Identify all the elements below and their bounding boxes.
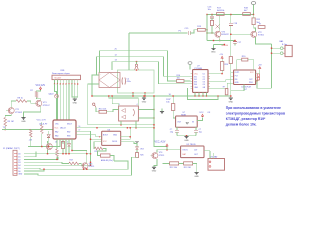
switch cross S1 xyxy=(216,25,220,29)
resistor R26 vertical xyxy=(136,150,138,153)
svg-text:10k: 10k xyxy=(177,78,180,80)
resistor R19 vertical xyxy=(172,96,174,104)
mcu right pin wires xyxy=(76,127,85,129)
svg-text:R?: R? xyxy=(223,87,225,89)
svg-text:OF: OF xyxy=(207,112,211,114)
svg-text:OUT: OUT xyxy=(194,154,199,156)
diode VD2 xyxy=(47,135,50,138)
resistor R18 4k7 xyxy=(243,13,251,16)
power supply flag top xyxy=(251,2,256,5)
diode VD3 xyxy=(136,147,139,150)
wire r20 left to U3 top xyxy=(237,60,242,70)
u6 right pin stubs xyxy=(121,136,124,138)
svg-text:8x1-4k7: 8x1-4k7 xyxy=(55,78,62,80)
wire power stem xyxy=(253,4,255,14)
wire q2 emitter to right rail xyxy=(255,37,271,44)
wire routing loop below U2 xyxy=(188,88,219,100)
wire r20 right xyxy=(248,60,254,70)
power flag diode column xyxy=(135,140,138,142)
gnd arrow small xyxy=(161,109,163,112)
oscillator module ZQ1 xyxy=(173,110,176,118)
transistor VT6 xyxy=(79,163,82,165)
ground flag right xyxy=(195,171,199,173)
module bottom junctions xyxy=(132,92,133,93)
svg-text:VCC 4.7V: VCC 4.7V xyxy=(37,119,47,121)
wire x1 pin 4 xyxy=(14,161,17,163)
svg-text:R12 10k: R12 10k xyxy=(170,167,177,169)
svg-text:KT361: KT361 xyxy=(258,35,265,37)
svg-text:Резисторная сборка: Резисторная сборка xyxy=(52,73,71,75)
svg-text:10n: 10n xyxy=(208,9,212,11)
svg-text:электропроводимых транзисторов: электропроводимых транзисторов xyxy=(226,112,285,116)
svg-text:4: 4 xyxy=(137,104,138,106)
wire rn1 outputs to mcu xyxy=(54,80,56,84)
wire pin1 row xyxy=(24,153,91,155)
ground flag below q1 xyxy=(213,40,214,41)
svg-text:VCC_4,5V: VCC_4,5V xyxy=(155,142,166,144)
wire U2 pin7 to U3 xyxy=(210,83,230,89)
resistor R12 10k xyxy=(170,162,179,165)
svg-text:ЦП_А_РV: ЦП_А_РV xyxy=(39,122,48,125)
wire U2 out through R14 to gnd flag xyxy=(210,70,222,73)
mcu bottom pin stubs xyxy=(56,139,58,144)
resistor R7 vertical zigzag xyxy=(37,90,41,92)
svg-text:16: 16 xyxy=(55,142,57,144)
microphone symbol Y xyxy=(135,64,137,66)
svg-text:BA1: BA1 xyxy=(280,40,285,43)
svg-text:X1 (ПАРАЛ. ПОРТ): X1 (ПАРАЛ. ПОРТ) xyxy=(3,147,20,150)
resistor R29 box vertical xyxy=(62,142,64,144)
svg-text:C18: C18 xyxy=(233,23,238,25)
svg-text:КТ315: КТ315 xyxy=(159,155,164,157)
svg-text:D4: D4 xyxy=(18,165,20,167)
wire pin8 row long nested xyxy=(24,157,137,175)
svg-text:PC900B: PC900B xyxy=(195,68,203,70)
ground flag above U2 right xyxy=(213,45,215,49)
wire speaker feed 1 xyxy=(272,47,281,49)
resistor R16 10k xyxy=(177,80,185,83)
wire top bus xyxy=(207,14,254,16)
svg-text:RN1: RN1 xyxy=(61,70,66,72)
resistor R8 horizontal zigzag xyxy=(16,100,27,103)
diode VD4 column xyxy=(68,143,70,146)
svg-text:VCC: VCC xyxy=(55,128,59,130)
svg-text:R*: R* xyxy=(259,24,261,26)
IC DD1 PIC16F84 MCU xyxy=(53,120,76,139)
svg-text:R14: R14 xyxy=(225,64,230,66)
svg-text:15p: 15p xyxy=(199,131,202,133)
wire r9 to mcu row xyxy=(4,126,6,129)
svg-text:GND.: GND. xyxy=(211,51,216,53)
svg-text:U5 78L05: U5 78L05 xyxy=(187,144,197,146)
svg-text:D5: D5 xyxy=(18,168,20,170)
svg-text:КТ3107: КТ3107 xyxy=(43,105,51,107)
svg-text:КТ3102: КТ3102 xyxy=(15,112,23,114)
svg-text:D0: D0 xyxy=(18,154,20,156)
svg-text:+5V: +5V xyxy=(29,139,33,141)
resistor R27 zigzag xyxy=(69,162,79,165)
svg-text:12V: 12V xyxy=(194,150,198,152)
resistor R14 vertical xyxy=(220,62,223,71)
svg-text:P1: P1 xyxy=(179,30,182,32)
wire mcu left net xyxy=(2,129,53,131)
wire x1 pin 3 xyxy=(14,158,17,160)
svg-text:делаем более 10к.: делаем более 10к. xyxy=(226,123,257,127)
wire bridge left pins xyxy=(92,75,99,96)
resistor R6 zigzag xyxy=(29,129,32,137)
svg-text:КТ361ДГ, резистор R19*: КТ361ДГ, резистор R19* xyxy=(226,117,266,121)
wire r11 top to bus xyxy=(253,15,255,18)
svg-text:R9 1M: R9 1M xyxy=(8,121,14,123)
svg-text:GND: GND xyxy=(73,103,78,105)
svg-text:МОВ: МОВ xyxy=(181,115,186,117)
ground flag below U3 xyxy=(231,85,244,99)
svg-text:GND: GND xyxy=(18,174,23,176)
ground flag osc xyxy=(186,135,187,136)
svg-text:R13 1k5: R13 1k5 xyxy=(184,167,191,169)
svg-text:R20: R20 xyxy=(242,56,247,58)
wire r8 to vt3 base xyxy=(27,101,36,103)
IC U6 24C01 xyxy=(102,131,121,145)
svg-text:GND: GND xyxy=(113,135,118,137)
connector X2 battery xyxy=(208,159,225,171)
wire q1 collector xyxy=(219,16,221,31)
wire vt6 collector xyxy=(72,151,87,163)
wire r10 to opto xyxy=(107,110,119,112)
svg-text:R27: R27 xyxy=(70,160,73,162)
svg-text:VCC: VCC xyxy=(199,112,204,114)
resistor jumper on bus xyxy=(225,89,228,95)
wire u6 pin2 feed xyxy=(91,138,99,140)
wire bus1 y124.8 xyxy=(88,124,154,126)
svg-text:КТ671: КТ671 xyxy=(183,150,188,152)
IC U5 78L05 xyxy=(181,146,204,158)
svg-text:R10 10k: R10 10k xyxy=(99,108,106,110)
wire gnd bus y96 xyxy=(92,95,231,97)
wire bus2 y127.8 from mcu xyxy=(85,127,155,129)
svg-text:U?: U? xyxy=(245,89,248,91)
wire pin7 row short xyxy=(24,169,44,171)
wire osc gnd bus xyxy=(177,135,196,137)
svg-text:GND: GND xyxy=(194,176,199,178)
svg-text:BAT: BAT xyxy=(183,153,187,156)
wire x1 pin 2 xyxy=(14,156,17,158)
wire vt1 collector to r8 xyxy=(11,101,16,107)
capacitor C17 on emitter xyxy=(234,41,236,42)
resistor R9 1M zigzag xyxy=(5,114,11,118)
svg-text:+5V: +5V xyxy=(258,65,262,67)
svg-text:GND: GND xyxy=(184,140,189,142)
transistor VT4 KT315 xyxy=(152,153,158,159)
svg-text:R26: R26 xyxy=(140,155,143,157)
wire U2 pin6 to U3 xyxy=(210,80,230,82)
u6 left pin stubs xyxy=(99,136,102,138)
wire input down from amp net xyxy=(128,33,130,70)
svg-text:+: + xyxy=(117,74,119,76)
U2 left pin stubs xyxy=(190,73,192,75)
svg-text:D1: D1 xyxy=(18,156,20,158)
resistor R22 small xyxy=(258,26,265,29)
svg-text:DAC-B: DAC-B xyxy=(60,127,66,130)
resistor network RN1 xyxy=(52,75,81,79)
wire q1 emitter down xyxy=(219,37,221,40)
wire x1 pin 1 xyxy=(14,153,17,155)
svg-text:R8 1k: R8 1k xyxy=(18,98,23,100)
wire r25 right down xyxy=(110,156,114,162)
wire right vertical x154 xyxy=(154,96,167,147)
ground flag network spare pins xyxy=(72,84,78,97)
wire resistor row xyxy=(163,162,170,164)
svg-text:U1: U1 xyxy=(203,74,205,76)
speaker BA1 connector xyxy=(280,47,283,50)
svg-text:RA3: RA3 xyxy=(55,135,58,138)
svg-text:КТ315: КТ315 xyxy=(89,166,94,168)
svg-text:OUT: OUT xyxy=(249,79,253,81)
transistor VT5 BC847 xyxy=(215,31,221,37)
wire vt3 emitter to gnd xyxy=(24,106,41,117)
wire x66 stub down xyxy=(65,144,67,154)
wire vt4 collector to u5 xyxy=(157,150,181,153)
svg-text:VCC: VCC xyxy=(103,141,107,143)
svg-text:MCLR: MCLR xyxy=(67,123,73,125)
wire net C to U2 pin4 xyxy=(112,62,190,84)
svg-text:D6: D6 xyxy=(18,171,20,173)
capacitor C13 xyxy=(176,127,178,130)
power flag above U2 xyxy=(188,62,192,65)
svg-text:C17: C17 xyxy=(237,42,242,44)
svg-text:GND: GND xyxy=(194,87,199,89)
svg-text:VD3: VD3 xyxy=(140,148,144,150)
svg-text:R15: R15 xyxy=(197,26,202,28)
wire pin5 row xyxy=(24,164,91,166)
svg-text:GND: GND xyxy=(229,102,234,104)
resistor R13 1k5 xyxy=(184,162,193,165)
diode VD5 KD522 xyxy=(55,84,57,94)
wire r11 to q2 collector xyxy=(254,25,256,32)
svg-text:BOUT: BOUT xyxy=(103,135,109,137)
svg-text:X2 BAT: X2 BAT xyxy=(211,156,219,159)
resistor R17 6k8 xyxy=(217,13,225,16)
svg-text:VCC: VCC xyxy=(194,74,198,76)
svg-text:OSC: OSC xyxy=(55,123,59,125)
resistor R24 zigzag xyxy=(94,142,99,149)
svg-text:470u: 470u xyxy=(127,81,131,83)
svg-text:RA2: RA2 xyxy=(55,131,58,134)
IC U3 LM567 xyxy=(234,70,256,85)
wire rail to U3 area xyxy=(257,81,272,89)
wire x1 pin 5 xyxy=(14,164,17,166)
wire emitter bus xyxy=(207,40,235,42)
wire x1 pin 7 xyxy=(14,170,17,172)
svg-text:10k: 10k xyxy=(166,101,170,103)
svg-text:16: 16 xyxy=(79,126,81,128)
wire to q2 base xyxy=(231,33,251,35)
resistor R15 xyxy=(198,28,206,31)
resistor R5 zigzag xyxy=(41,125,44,134)
svg-text:R7: R7 xyxy=(30,90,33,92)
resistor R25 box xyxy=(98,148,107,155)
U2 bottom pin stubs xyxy=(194,92,196,96)
IC U2 PC900B xyxy=(193,70,208,93)
svg-text:6k8/10k: 6k8/10k xyxy=(217,10,225,12)
wire opto bottom pins to buses xyxy=(120,121,122,125)
U3 left pin stubs xyxy=(231,72,234,74)
capacitor C18 interstage xyxy=(230,15,232,23)
transistor VT2 KT361 xyxy=(251,31,257,37)
resistor R21 vertical xyxy=(211,18,213,20)
svg-text:GND: GND xyxy=(235,82,240,84)
transistor VT7 cluster xyxy=(52,144,60,147)
svg-text:OUT: OUT xyxy=(177,122,182,124)
module box xyxy=(118,70,155,93)
ground flag on bus xyxy=(143,96,145,98)
wire right vertical rail xyxy=(271,44,273,88)
svg-text:GND: GND xyxy=(142,102,147,104)
bridge rectifier VD1 xyxy=(99,73,120,88)
resistor R20 xyxy=(242,58,248,61)
wire mcu pin to vt6 net xyxy=(71,144,73,151)
probe symbol xyxy=(93,103,95,105)
svg-text:GND: GND xyxy=(21,121,26,123)
wire long input net P1 xyxy=(129,32,187,34)
wire net B vertical from bridge xyxy=(96,57,98,75)
wire left bias vertical xyxy=(206,15,208,41)
svg-text:GN: GN xyxy=(203,87,206,89)
wire x1 pin 6 xyxy=(14,167,17,169)
wire opto top feeds xyxy=(109,96,138,106)
wire pin6 row long nested xyxy=(24,161,128,169)
power arrow osc xyxy=(202,116,204,117)
U3 right pin stubs xyxy=(256,73,259,75)
transistor VT1 KT3102 xyxy=(8,108,14,114)
wire net C vertical into module xyxy=(111,62,113,70)
svg-text:1: 1 xyxy=(119,104,120,106)
wire vt4 base stub xyxy=(150,155,151,157)
svg-text:+5V: +5V xyxy=(219,54,223,56)
svg-text:КД522: КД522 xyxy=(49,93,54,95)
wire c15 to r15 xyxy=(190,30,197,33)
connector X1 parallel port xyxy=(13,150,17,175)
svg-text:RB3: RB3 xyxy=(67,136,70,138)
svg-text:ADM-85 (15к): ADM-85 (15к) xyxy=(101,159,113,162)
svg-text:8 Ом: 8 Ом xyxy=(282,44,287,46)
resistor R28 zigzag vertical xyxy=(56,144,58,149)
svg-text:BC847C: BC847C xyxy=(222,34,230,36)
transistor VT3 KT3107 xyxy=(37,98,41,101)
wire net A vertical from bridge xyxy=(99,51,101,73)
wire x1 pin 8 xyxy=(14,173,17,175)
resistor R10 xyxy=(96,107,99,111)
svg-text:D2: D2 xyxy=(18,159,20,161)
svg-text:D3: D3 xyxy=(18,162,20,164)
wire vt4 emitter to gnd xyxy=(154,159,157,167)
resistor R11 5k6 vertical xyxy=(252,18,255,25)
wire opto right pins to right rail xyxy=(138,109,154,111)
wire net A from module to R16 xyxy=(100,51,177,81)
svg-text:RB2: RB2 xyxy=(67,132,70,134)
wire pin2 elbow xyxy=(24,152,36,157)
wire r23 down to gnd xyxy=(230,64,232,91)
svg-text:IN: IN xyxy=(192,122,194,124)
wires left parts to row xyxy=(41,122,43,125)
wire vt6 emitter xyxy=(86,168,88,170)
svg-text:При использовании в усилителе: При использовании в усилителе xyxy=(226,106,281,110)
capacitor C15 input xyxy=(187,31,189,35)
svg-text:GND: GND xyxy=(152,171,157,173)
svg-text:C15: C15 xyxy=(185,28,190,30)
wire r15 to q1 base xyxy=(205,30,214,33)
U2 right pin stubs xyxy=(208,73,210,75)
wire vt1 base stub xyxy=(6,110,8,112)
wire r26 down to row xyxy=(136,156,138,158)
capacitor C14 xyxy=(195,127,197,130)
svg-text:~: ~ xyxy=(100,74,102,76)
power arrow vcc4.7 xyxy=(166,146,168,147)
svg-text:FLT: FLT xyxy=(235,76,238,78)
wire speaker feed 2 xyxy=(272,52,281,54)
power +5V flag right of U3 xyxy=(259,69,261,70)
svg-text:4k7: 4k7 xyxy=(244,10,248,12)
wire u6 right nets xyxy=(124,136,131,138)
node bus junctions xyxy=(206,14,207,15)
wire cap column to input node xyxy=(211,25,213,33)
wire pin4 row to R27 xyxy=(24,162,69,163)
electrolytic capacitor C2 xyxy=(121,78,124,85)
optocoupler U4 xyxy=(119,106,139,121)
svg-text:15p: 15p xyxy=(170,131,173,133)
resistor R23 vertical xyxy=(230,34,232,56)
svg-text:24C01: 24C01 xyxy=(112,141,117,143)
wire net B to U2 pin3 xyxy=(97,57,191,77)
wire pin3 row xyxy=(24,157,58,159)
note text (russian) xyxy=(226,106,285,127)
svg-text:IN1: IN1 xyxy=(235,79,238,81)
svg-text:OUT1: OUT1 xyxy=(235,72,240,74)
svg-text:VCC: VCC xyxy=(250,72,254,74)
svg-text:PW1: PW1 xyxy=(249,82,253,84)
